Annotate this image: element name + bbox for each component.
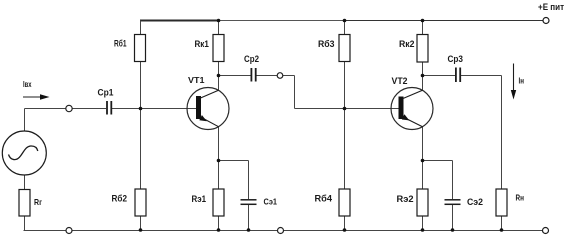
resistor Rb3 <box>339 35 350 62</box>
wire top rail <box>219 20 344 22</box>
resistor Rn <box>496 189 507 216</box>
wire bottom rail <box>24 230 67 232</box>
node bottom-left terminal <box>66 228 72 234</box>
svg-text:Rэ1: Rэ1 <box>192 194 207 205</box>
node junction VT1 emitter <box>217 159 221 163</box>
source G1 sine generator <box>2 131 46 175</box>
capacitor Cp2 <box>251 68 255 82</box>
node junction VT2 base <box>343 107 347 111</box>
node junction bottom Re2 <box>421 228 425 232</box>
svg-text:Cp2: Cp2 <box>244 54 259 64</box>
wire Cp1 to VT1 base <box>112 108 196 110</box>
node junction bottom Re1 <box>217 228 221 232</box>
wire source branch <box>24 109 26 132</box>
svg-text:Iвх: Iвх <box>23 80 32 89</box>
node junction bottom Rb4 <box>343 228 347 232</box>
wire Rk1 / VT1 collector vertical <box>218 21 220 35</box>
svg-text:Rб1: Rб1 <box>114 39 127 49</box>
wire Ce1 branch <box>219 160 249 162</box>
node junction bottom Ce2 <box>451 228 455 232</box>
node junction bottom Rb2 <box>139 228 143 232</box>
node junction top Rk2 <box>421 19 425 23</box>
resistor Rg <box>19 190 30 217</box>
svg-text:Rк2: Rк2 <box>399 39 415 50</box>
node junction VT1 base <box>139 107 143 111</box>
resistor Rk1 <box>213 35 224 62</box>
label Ivx input current arrow <box>23 80 50 100</box>
capacitor Ce1 <box>241 200 257 205</box>
resistor Rb1 <box>135 35 146 62</box>
svg-text:+Е пит: +Е пит <box>538 2 565 12</box>
node junction VT1 collector / Cp2 <box>217 74 221 78</box>
resistor Rb2 <box>135 189 146 216</box>
label In load current arrow <box>511 64 524 100</box>
svg-text:Rб3: Rб3 <box>318 39 335 50</box>
svg-text:Cp1: Cp1 <box>98 88 114 98</box>
transistor VT1 <box>187 88 229 130</box>
svg-text:Cэ2: Cэ2 <box>467 197 483 207</box>
node input terminal <box>66 105 72 111</box>
svg-text:Cp3: Cp3 <box>448 54 464 65</box>
transistor VT2 <box>391 88 433 130</box>
resistor Rk2 <box>417 35 428 63</box>
wire Rb3/Rb4 vertical <box>344 21 346 35</box>
node junction VT2 emitter <box>421 159 425 163</box>
svg-text:Rн: Rн <box>516 193 525 203</box>
wire input line <box>25 108 67 110</box>
node junction bottom Ce1 <box>247 228 251 232</box>
resistor Rb4 <box>339 189 350 216</box>
wire Rn vertical <box>501 76 503 190</box>
node bottom-right terminal <box>543 228 549 234</box>
svg-text:Cэ1: Cэ1 <box>264 197 278 207</box>
node interstage terminal <box>277 73 283 79</box>
svg-text:VT2: VT2 <box>392 76 408 86</box>
resistor Re1 <box>213 189 224 216</box>
wire VT1 emitter vertical and Re1 <box>218 127 220 189</box>
svg-text:Rэ2: Rэ2 <box>397 194 414 205</box>
node junction top Rb3 <box>343 19 347 23</box>
node junction top Rk1 <box>217 19 221 23</box>
capacitor Cp1 <box>107 101 111 115</box>
capacitor Ce2 <box>445 200 461 205</box>
wire Cp2 branch <box>219 75 251 77</box>
svg-text:Rк1: Rк1 <box>195 39 210 50</box>
wire interstage to VT2 base <box>295 108 399 110</box>
wire Cp3 branch <box>423 75 456 77</box>
wire top rail bold segment <box>140 20 219 22</box>
wire Rb1/Rb2 vertical <box>140 21 142 35</box>
svg-text:VT1: VT1 <box>188 75 205 85</box>
wire VT2 emitter vertical and Re2 <box>422 127 424 189</box>
capacitor Cp3 <box>456 68 460 83</box>
node +E terminal <box>543 18 549 24</box>
wire Ce2 branch <box>423 160 453 162</box>
wire Rk2 / VT2 collector vertical <box>422 21 424 35</box>
svg-text:Rб2: Rб2 <box>112 194 128 204</box>
svg-text:Iн: Iн <box>519 77 525 86</box>
svg-text:Rб4: Rб4 <box>315 194 333 204</box>
node junction bottom Rn <box>500 228 504 232</box>
node bottom-middle terminal <box>278 228 284 234</box>
resistor Re2 <box>417 189 428 216</box>
svg-text:Rг: Rг <box>34 197 42 207</box>
node junction VT2 collector / Cp3 <box>421 74 425 78</box>
